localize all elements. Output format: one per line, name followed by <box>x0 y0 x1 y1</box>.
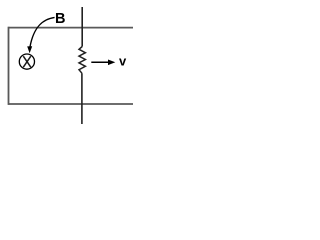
wire: sliding rod upper segment <box>81 7 83 47</box>
wire: sliding rod lower segment <box>81 73 83 124</box>
magnetic field symbol: circle with X (B into page) <box>19 54 34 69</box>
wire: left end conductor <box>8 27 10 105</box>
wire: bottom rail <box>9 103 134 105</box>
svg-text:v: v <box>119 54 127 69</box>
svg-text:B: B <box>55 11 65 27</box>
voltage arrow v <box>91 60 115 66</box>
wire: top rail <box>9 27 134 29</box>
leader arrow from label B to field symbol <box>27 17 54 53</box>
resistor R (zigzag on rod) <box>79 47 85 74</box>
